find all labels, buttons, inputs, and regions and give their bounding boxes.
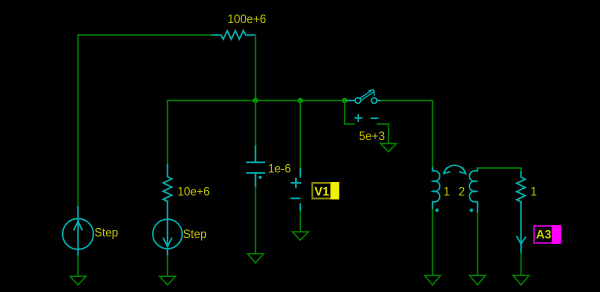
L2 phase dot xyxy=(470,209,473,212)
wire top-left horizontal xyxy=(78,34,211,36)
L1 phase dot xyxy=(435,209,438,212)
ground under ammeter xyxy=(513,275,529,285)
wire switch control minus to ground xyxy=(378,124,389,143)
svg-text:V1: V1 xyxy=(315,184,330,198)
ground under V1 xyxy=(292,232,308,240)
wire bus down to R2 xyxy=(167,101,169,165)
node junction dot B xyxy=(298,98,303,103)
wire switch to transformer xyxy=(381,101,433,169)
transformer coupling arrow xyxy=(444,165,466,173)
wire I2 to ground xyxy=(167,256,169,276)
capacitor polarity dot xyxy=(259,176,262,179)
wire L1 to ground xyxy=(432,210,434,276)
ground under C1 xyxy=(248,254,264,263)
voltmeter V1 probe xyxy=(291,169,300,212)
svg-text:1: 1 xyxy=(444,187,450,199)
svg-text:A3: A3 xyxy=(536,227,552,241)
wire C1 to ground xyxy=(255,187,257,253)
svg-text:Step: Step xyxy=(183,229,207,241)
wire bus down to voltmeter V1 xyxy=(299,101,301,169)
svg-text:1e-6: 1e-6 xyxy=(268,164,291,176)
resistor R3 1 xyxy=(517,172,526,203)
ground under I2 xyxy=(160,276,176,285)
resistor R1 100e+6 xyxy=(212,31,255,40)
wire L2 to ground xyxy=(477,213,479,275)
capacitor C1 1e-6 xyxy=(247,146,264,187)
wire left vertical xyxy=(77,35,79,207)
svg-text:10e+6: 10e+6 xyxy=(178,187,210,199)
wire V1 to ground xyxy=(299,211,301,231)
inductor L1 (primary, label 1) xyxy=(433,168,440,210)
V1 label box xyxy=(312,182,339,199)
A3 label box xyxy=(534,225,561,244)
wire transformer secondary to R3 xyxy=(478,168,522,172)
ground under I1 xyxy=(70,276,86,285)
svg-text:1: 1 xyxy=(531,187,537,199)
inductor L2 (secondary, label 2) xyxy=(469,168,477,213)
resistor R2 10e+6 xyxy=(163,165,172,220)
ammeter arrow xyxy=(517,203,526,253)
wire main bus xyxy=(168,100,345,102)
current source I1 (Step, up arrow) xyxy=(63,207,94,256)
wire bus down to C1 xyxy=(255,101,257,147)
wire I1 to ground xyxy=(77,256,79,276)
ground under L1 xyxy=(425,275,441,285)
svg-text:100e+6: 100e+6 xyxy=(228,14,267,26)
ground under switch xyxy=(381,144,397,152)
node junction dot C xyxy=(342,98,347,103)
svg-text:5e+3: 5e+3 xyxy=(359,131,385,143)
wire switch control plus xyxy=(345,101,354,125)
node junction dot A xyxy=(253,98,258,103)
ground under L2 xyxy=(470,275,486,285)
svg-text:2: 2 xyxy=(459,187,465,199)
switch S1 xyxy=(347,90,381,121)
wire from R1 down to bus xyxy=(255,36,257,100)
svg-text:Step: Step xyxy=(95,228,119,240)
current source I2 (Step, down arrow) xyxy=(153,219,182,256)
wire ammeter to ground xyxy=(520,253,522,275)
